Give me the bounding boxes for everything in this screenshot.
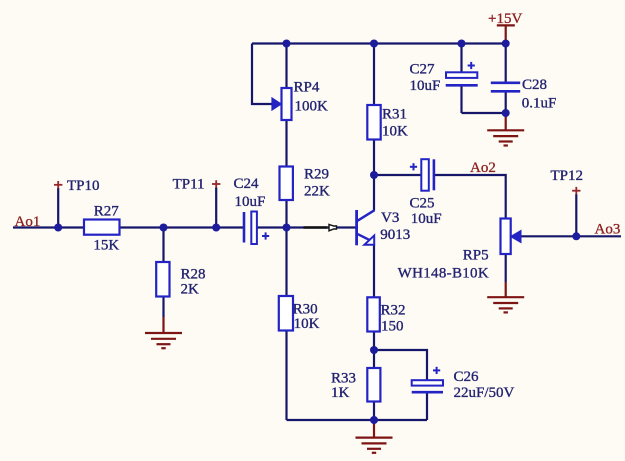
wire RP4 bottom to R29 top bbox=[285, 120, 287, 167]
svg-text:V3: V3 bbox=[381, 210, 399, 226]
svg-text:10uF: 10uF bbox=[410, 78, 441, 94]
svg-text:R29: R29 bbox=[304, 167, 329, 183]
potentiometer RP5 wiper arrow bbox=[511, 230, 522, 242]
wire rail to R31 top bbox=[373, 44, 375, 106]
svg-text:150: 150 bbox=[381, 319, 404, 335]
ground under R33 (bottom) bbox=[356, 420, 393, 453]
wire rail to C27 top bbox=[460, 44, 462, 73]
node bottom rail ground junction bbox=[370, 416, 378, 424]
test point TP10 pin cross bbox=[54, 181, 62, 189]
node TP12 Ao3 junction bbox=[572, 232, 580, 240]
svg-text:C26: C26 bbox=[454, 369, 480, 385]
node rail +15V junction bbox=[502, 40, 510, 48]
svg-text:TP12: TP12 bbox=[551, 168, 584, 184]
potentiometer RP4 wiper arrow bbox=[272, 98, 282, 110]
capacitor C25 (electrolytic, + left) bbox=[410, 159, 434, 191]
node collector C25 junction bbox=[370, 171, 378, 179]
wire TP12 stem bbox=[575, 194, 577, 236]
wire C27 bottom to ground wire bbox=[460, 86, 462, 114]
wire top +15V rail bbox=[252, 42, 506, 44]
svg-text:R32: R32 bbox=[381, 303, 406, 319]
wire R33 bottom to bottom rail bbox=[373, 402, 375, 421]
resistor R27 bbox=[84, 220, 120, 235]
svg-text:C24: C24 bbox=[234, 176, 260, 192]
potentiometer RP4 body bbox=[282, 88, 292, 120]
capacitor C24 (electrolytic, + right) bbox=[244, 212, 269, 245]
svg-text:C27: C27 bbox=[410, 62, 436, 78]
svg-text:WH148-B10K: WH148-B10K bbox=[398, 266, 489, 282]
node rail C27 junction bbox=[458, 40, 466, 48]
svg-text:100K: 100K bbox=[295, 99, 329, 115]
resistor R33 bbox=[367, 368, 380, 402]
node R32 C26 junction bbox=[370, 346, 378, 354]
signal direction arrow at V3 base (black) bbox=[304, 224, 337, 230]
node base/R29/R30 junction bbox=[283, 224, 291, 232]
wire C25 to Ao2 corner down to RP5 top bbox=[434, 175, 506, 219]
svg-text:R27: R27 bbox=[94, 204, 120, 220]
svg-text:9013: 9013 bbox=[380, 227, 410, 243]
svg-text:TP10: TP10 bbox=[67, 178, 100, 194]
resistor R28 bbox=[156, 262, 169, 297]
ground under R28 bbox=[145, 317, 182, 348]
wire RP4 wiper loop bbox=[252, 44, 274, 105]
svg-text:10uF: 10uF bbox=[411, 211, 442, 227]
node R28 junction bbox=[160, 224, 168, 232]
wire R32 bottom to R33 top bbox=[373, 332, 375, 369]
node TP11 junction bbox=[212, 224, 220, 232]
svg-text:RP4: RP4 bbox=[294, 80, 320, 96]
wire RP5 bottom to ground bbox=[505, 254, 507, 282]
svg-text:R31: R31 bbox=[382, 106, 407, 122]
test point TP11 pin cross bbox=[212, 180, 220, 188]
wire R30 bottom to bottom rail bbox=[285, 331, 287, 421]
wire node to R30 top bbox=[285, 228, 287, 297]
wire C24 right plate to V3 base bbox=[257, 226, 357, 228]
wire R31 bottom to collector bbox=[373, 140, 375, 211]
svg-text:15K: 15K bbox=[93, 238, 119, 254]
svg-text:Ao2: Ao2 bbox=[470, 160, 496, 176]
ground under C27 C28 bbox=[487, 113, 524, 146]
svg-text:1K: 1K bbox=[331, 385, 350, 401]
transistor V3 (NPN 9013) bbox=[357, 210, 375, 245]
wire rail to C28 top bbox=[505, 44, 507, 83]
svg-text:TP11: TP11 bbox=[173, 177, 205, 193]
svg-text:R28: R28 bbox=[181, 267, 206, 283]
wire Ao1 input to C24 left plate bbox=[13, 226, 244, 228]
capacitor C27 (electrolytic, vertical) bbox=[446, 62, 478, 85]
node rail RP4 junction bbox=[283, 40, 291, 48]
svg-text:2K: 2K bbox=[181, 281, 200, 297]
svg-text:RP5: RP5 bbox=[463, 248, 489, 264]
svg-text:Ao1: Ao1 bbox=[15, 214, 41, 230]
node TP10 junction bbox=[54, 224, 62, 232]
resistor R30 bbox=[279, 296, 293, 331]
wire C27/C28 ground link bbox=[462, 112, 506, 114]
wire TP10 stem bbox=[57, 188, 59, 228]
wire C28 bottom bbox=[505, 91, 507, 113]
ground under RP5 bbox=[487, 282, 524, 312]
svg-text:22K: 22K bbox=[304, 184, 330, 200]
power symbol +15V bbox=[497, 25, 515, 43]
wire R28 bottom to ground bbox=[162, 297, 164, 318]
wire collector node to C25 bbox=[374, 174, 421, 176]
wire R32/R33 node to C26 top bbox=[374, 350, 427, 380]
wire bottom ground rail bbox=[287, 419, 428, 421]
test point TP12 pin cross bbox=[572, 187, 580, 195]
resistor R32 bbox=[367, 297, 380, 331]
svg-text:10K: 10K bbox=[382, 123, 408, 139]
resistor R31 bbox=[367, 105, 380, 140]
capacitor C28 (ceramic) bbox=[491, 83, 520, 92]
wire TP11 stem bbox=[215, 188, 217, 228]
svg-text:+15V: +15V bbox=[488, 11, 522, 27]
node C27/C28 ground junction bbox=[502, 109, 510, 117]
svg-text:Ao3: Ao3 bbox=[595, 222, 621, 238]
resistor R29 bbox=[280, 167, 293, 201]
svg-text:C28: C28 bbox=[522, 77, 547, 93]
wire R29 bottom to main line node bbox=[285, 200, 287, 228]
svg-text:C25: C25 bbox=[410, 196, 435, 212]
svg-text:10K: 10K bbox=[294, 316, 320, 332]
wire C26 bottom to bottom rail bbox=[426, 392, 428, 420]
node rail R31 junction bbox=[370, 40, 378, 48]
wire emitter to R32 top bbox=[373, 245, 375, 298]
capacitor C26 (electrolytic, vertical) bbox=[412, 367, 443, 392]
svg-text:22uF/50V: 22uF/50V bbox=[454, 385, 515, 401]
wire node to R28 top bbox=[162, 228, 164, 263]
wire rail to RP4 top bbox=[285, 44, 287, 89]
svg-text:10uF: 10uF bbox=[235, 194, 266, 210]
potentiometer RP5 body bbox=[501, 219, 511, 255]
wire RP5 wiper to Ao3 bbox=[521, 235, 622, 237]
svg-text:0.1uF: 0.1uF bbox=[522, 96, 557, 112]
